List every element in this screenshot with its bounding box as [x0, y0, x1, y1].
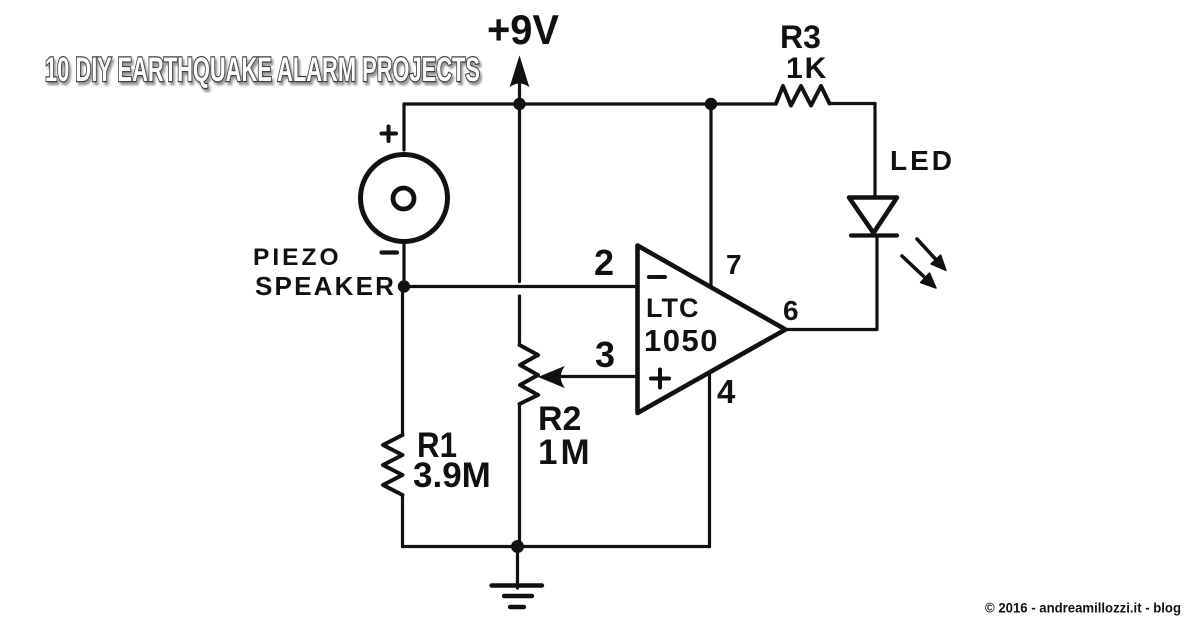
ground stub — [516, 547, 519, 589]
wire LED anode — [873, 104, 876, 198]
piezo plus mark — [382, 127, 397, 142]
svg-text:PIEZO: PIEZO — [253, 244, 342, 271]
wire output pin6 — [786, 236, 878, 330]
svg-text:6: 6 — [783, 295, 799, 326]
op-amp minus input mark — [649, 275, 665, 279]
resistor R3 — [776, 86, 830, 106]
wire +9V upper segment — [518, 72, 521, 282]
op-amp U1 triangle — [638, 246, 786, 414]
svg-text:10 DIY EARTHQUAKE ALARM PROJEC: 10 DIY EARTHQUAKE ALARM PROJECTS — [45, 51, 480, 89]
wire top rail right of R3 — [830, 102, 875, 105]
svg-text:4: 4 — [717, 373, 736, 410]
svg-text:© 2016 - andreamillozzi.it - b: © 2016 - andreamillozzi.it - blog — [985, 600, 1181, 616]
wire +9V mid segment — [518, 296, 521, 345]
wire top rail left — [404, 102, 776, 105]
wire pin7 — [709, 104, 712, 287]
ground symbol — [492, 583, 543, 587]
wire R1 bottom — [401, 495, 404, 547]
wire bottom rail — [403, 545, 710, 548]
LED cathode bar — [851, 233, 897, 237]
wire R1 branch top — [401, 287, 404, 436]
svg-text:SPEAKER: SPEAKER — [255, 271, 396, 301]
wire piezo top — [402, 104, 405, 150]
title banner — [45, 51, 480, 89]
wire pin2 net — [404, 285, 638, 288]
svg-text:2: 2 — [594, 242, 614, 283]
R2 wiper arrowhead — [540, 368, 563, 387]
op-amp plus input mark — [651, 370, 669, 388]
svg-text:LTC: LTC — [646, 293, 699, 323]
junction piezo/pin2 — [398, 280, 410, 292]
svg-text:1M: 1M — [538, 433, 593, 472]
wire R2 bottom — [518, 404, 521, 547]
svg-text:7: 7 — [726, 249, 742, 280]
svg-text:1K: 1K — [786, 52, 828, 85]
wire piezo bottom — [402, 245, 405, 287]
piezo speaker outer circle — [361, 155, 448, 242]
junction ground/bottom rail — [511, 540, 524, 553]
piezo minus mark — [382, 250, 398, 254]
wire pin4 — [708, 375, 711, 547]
junction +9V/top rail — [513, 98, 525, 110]
svg-text:R3: R3 — [780, 19, 821, 55]
piezo speaker inner circle — [393, 188, 414, 209]
+9V arrowhead — [511, 57, 529, 86]
svg-text:LED: LED — [890, 145, 955, 176]
svg-text:1050: 1050 — [644, 323, 719, 358]
wire pin3 net — [558, 375, 638, 378]
resistor R1 — [383, 435, 403, 495]
junction pin7/top rail — [705, 98, 717, 110]
LED light arrow upper — [917, 239, 940, 264]
svg-text:3: 3 — [595, 334, 615, 375]
svg-text:3.9M: 3.9M — [413, 456, 491, 495]
LED light arrow lower — [902, 256, 929, 282]
LED triangle — [849, 198, 897, 234]
svg-text:+9V: +9V — [487, 6, 559, 53]
resistor R2 — [520, 345, 539, 404]
